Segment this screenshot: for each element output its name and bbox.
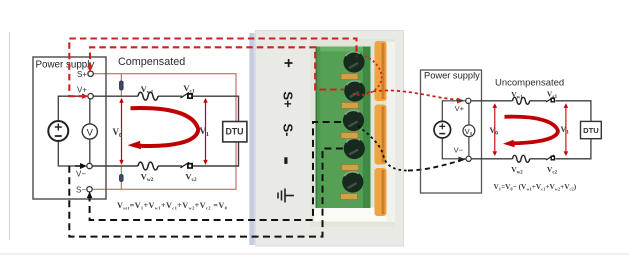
node V+ right	[466, 98, 471, 103]
label -	[284, 157, 287, 164]
ground symbol	[278, 189, 294, 203]
svg-text:Power supply: Power supply	[424, 71, 480, 81]
svg-text:DTU: DTU	[583, 126, 599, 135]
svg-text:Vw1: Vw1	[141, 84, 154, 96]
svg-text:DTU: DTU	[225, 126, 243, 136]
svg-text:Power supply: Power supply	[36, 60, 95, 71]
wire V internal top	[89, 99, 91, 124]
terminal block green body	[316, 47, 371, 209]
contact Vc2 right	[546, 155, 555, 161]
voltmeter V	[82, 124, 97, 139]
terminal block photo background	[311, 39, 396, 227]
terminal S-	[87, 187, 92, 192]
svg-text:V1=V0− (Vw1+Vc1+Vw2+Vc2): V1=V0− (Vw1+Vc1+Vw2+Vc2)	[494, 182, 577, 192]
resistor Vw2 right	[513, 155, 530, 162]
power supply box	[33, 57, 106, 199]
svg-text:Vset=V1+Vw1+Vc1+Vw2+Vc2 =V0: Vset=V1+Vw1+Vc1+Vw2+Vc2 =V0	[117, 201, 228, 211]
orange lever strip bottom	[375, 168, 387, 216]
voltage source	[48, 121, 68, 141]
black dashed wire S- to block S-	[90, 122, 343, 220]
svg-text:V0: V0	[490, 126, 499, 137]
svg-text:Vc2: Vc2	[185, 172, 197, 184]
contact Vc1 right	[546, 97, 555, 103]
black dotted wire block to uncompensated V-	[358, 126, 408, 171]
terminal V+	[88, 94, 93, 99]
V0 arrow	[121, 101, 123, 162]
terminal V-	[87, 163, 92, 168]
top wire right	[471, 100, 513, 102]
connector pill bottom	[120, 175, 124, 182]
resistor Vw1 right	[513, 97, 530, 104]
V0 arrow right	[494, 106, 496, 154]
red dashed wire S+ to block S+	[90, 47, 344, 89]
svg-text:Vc2: Vc2	[547, 165, 558, 176]
resistor Vw1	[138, 92, 158, 100]
svg-text:V+: V+	[455, 104, 465, 113]
terminal block PCB white strip right	[387, 42, 396, 222]
terminal block PCB white strip bottom	[314, 208, 390, 222]
svg-text:S-: S-	[281, 124, 296, 137]
wire right V- internal	[442, 138, 466, 159]
DTU box right	[581, 121, 602, 138]
svg-text:V0: V0	[113, 127, 123, 139]
orange lever strip middle	[375, 105, 387, 165]
red dotted wire block to uncompensated V+	[352, 56, 382, 95]
screw 1 (+)	[343, 51, 364, 72]
contact Vc2	[181, 162, 194, 169]
svg-text:V−: V−	[454, 146, 464, 155]
orange lever strip top	[375, 41, 387, 101]
svg-text:Compensated: Compensated	[118, 56, 185, 68]
terminal block panel	[256, 31, 404, 247]
top wire V+ to DTU	[93, 95, 138, 97]
svg-text:+: +	[280, 58, 297, 67]
red sense drop top	[120, 74, 122, 96]
screw 3 (S-)	[343, 110, 364, 131]
svg-text:S+: S+	[281, 91, 296, 108]
orange strip shading	[382, 43, 385, 214]
svg-text:Vc1: Vc1	[547, 90, 558, 101]
svg-text:V−: V−	[76, 170, 86, 179]
connector pill top	[120, 81, 124, 90]
svg-text:Vw2: Vw2	[141, 172, 154, 184]
wire right Vs top	[468, 103, 470, 125]
wire V- internal	[58, 141, 75, 166]
V1 arrow right	[565, 106, 567, 154]
screw 2 (S+)	[344, 80, 365, 101]
meter Vs	[463, 125, 475, 137]
svg-text:S+: S+	[77, 70, 87, 79]
DTU box	[223, 122, 247, 142]
red dashed wire V+ to block +	[69, 39, 356, 97]
page bottom edge line	[0, 253, 629, 255]
svg-text:V: V	[87, 127, 94, 138]
red sense drop bottom	[120, 167, 122, 190]
blue side band	[249, 33, 254, 245]
terminal S+	[88, 71, 93, 76]
wire right Vs bottom	[468, 137, 470, 157]
screw 5 (ground)	[342, 171, 363, 192]
svg-text:Vc1: Vc1	[183, 83, 195, 95]
red sense wire S+	[92, 74, 236, 190]
svg-text:S−: S−	[76, 186, 86, 195]
page left edge line	[9, 32, 11, 240]
svg-text:Vw2: Vw2	[511, 165, 523, 176]
power supply box right	[421, 70, 482, 193]
bottom wire right	[471, 158, 512, 160]
bottom wire V- to DTU	[92, 165, 138, 167]
svg-text:V1: V1	[200, 126, 210, 138]
red feedback arrow right	[505, 117, 559, 144]
black dashed wire V- to block -	[69, 149, 343, 237]
svg-text:Vw1: Vw1	[511, 90, 523, 101]
V1 arrow	[205, 101, 207, 162]
resistor Vw2	[138, 162, 158, 170]
svg-text:Uncompensated: Uncompensated	[495, 78, 564, 89]
red feedback arrow	[131, 108, 199, 146]
wire right V+ internal	[442, 101, 465, 122]
junction arrow into V-	[75, 163, 87, 169]
contact Vc1	[181, 93, 194, 100]
voltage source right	[434, 121, 451, 138]
svg-text:V+: V+	[77, 86, 87, 95]
wire entry pads	[341, 74, 359, 200]
wire V+ internal	[58, 96, 88, 121]
svg-text:V1: V1	[561, 125, 570, 136]
screw 4 (-)	[344, 138, 365, 159]
wire V internal bottom	[89, 139, 91, 163]
node V- right	[466, 156, 471, 161]
